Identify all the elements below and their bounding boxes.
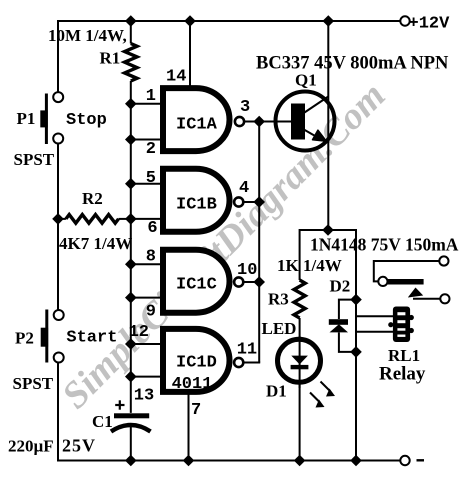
node: IC1B output (253, 196, 265, 208)
diode D2 triangle (330, 324, 349, 332)
node: bus pin12 (125, 338, 137, 350)
node: R2 left / switches (52, 213, 64, 225)
wire: pin 8 stub (131, 263, 161, 265)
NAND gate IC1D (163, 329, 230, 392)
node: top rail / collector (323, 15, 335, 27)
IC1B output bubble pin 4 (234, 197, 243, 206)
wire: pin 1 stub (131, 103, 161, 105)
svg-text:1K 1/4W: 1K 1/4W (277, 256, 342, 275)
svg-text:9: 9 (146, 303, 156, 322)
LED D1 light arrow 2 (310, 393, 320, 403)
wire: pin 14 to +12V (189, 21, 191, 86)
wire: left rail P2 to bottom (57, 362, 59, 461)
capacitor C1 top plate (114, 413, 149, 418)
NAND gate IC1A (163, 88, 230, 151)
wire: relay contact pole (374, 261, 439, 281)
node: IC1A output (253, 116, 265, 128)
relay RL1 upper terminal (439, 256, 448, 265)
NAND gate IC1C (163, 250, 230, 313)
wire: top rail +12V (58, 21, 400, 93)
wire: pin 7 to ground (188, 395, 190, 461)
wire: pin 13 stub (131, 376, 161, 378)
svg-text:LED: LED (262, 319, 297, 338)
svg-text:5: 5 (146, 169, 156, 188)
NAND gate IC1B (163, 169, 230, 232)
switch P2 lever (45, 310, 48, 363)
node: bottom rail / LED (294, 455, 306, 467)
wire: emitter node horizontal (300, 230, 356, 300)
LED D1 circle (278, 339, 321, 382)
wire: pin 6 stub (131, 218, 161, 220)
wire: relay branch vertical (355, 300, 357, 461)
svg-text:6: 6 (147, 219, 157, 238)
node: top rail / R1 (125, 15, 137, 27)
diode D2 cathode bar (329, 319, 348, 325)
relay RL1 contact blade (388, 279, 424, 285)
capacitor C1 plus sign (115, 400, 124, 409)
wire: IC1A output to Q1 base (245, 121, 292, 123)
IC1D output bubble pin 11 (234, 358, 243, 367)
wire: pin 5 stub (131, 183, 161, 185)
svg-text:10M 1/4W,: 10M 1/4W, (48, 26, 127, 45)
svg-text:14: 14 (166, 68, 186, 87)
node: bus pin9 (125, 292, 137, 304)
svg-text:12: 12 (129, 323, 149, 342)
svg-text:IC1A: IC1A (176, 116, 218, 135)
wire: relay coil lead top (356, 315, 393, 317)
terminal +12V (400, 16, 409, 25)
svg-text:D2: D2 (330, 277, 351, 296)
node: bottom rail / relay (350, 455, 362, 467)
IC1A output bubble pin 3 (235, 117, 244, 126)
node: top rail / pin14 (184, 15, 196, 27)
relay RL1 pole terminal (378, 277, 387, 286)
wire: left rail P1 to P2 (57, 143, 59, 311)
transistor Q1 base bar (291, 104, 305, 140)
node: bottom rail / pin7 (183, 455, 195, 467)
node: D2 top (350, 294, 362, 306)
svg-text:7: 7 (191, 401, 201, 420)
wire: pin 9 stub (131, 297, 161, 299)
wire: IC1D output stub (244, 362, 261, 364)
wire: gate outputs common vertical (258, 122, 260, 363)
LED D1 cathode bar (291, 365, 309, 369)
svg-text:IC1B: IC1B (176, 196, 217, 215)
svg-text:11: 11 (237, 341, 257, 360)
svg-text:+12V: +12V (409, 15, 451, 34)
LED D1 triangle (291, 356, 308, 365)
wire: input bus vertical (130, 21, 132, 44)
svg-text:Relay: Relay (379, 364, 426, 385)
svg-text:SPST: SPST (13, 374, 54, 393)
node: bus pin1 (125, 98, 137, 110)
transistor Q1 emitter line (303, 129, 318, 138)
svg-text:D1: D1 (266, 382, 287, 401)
svg-text:P2: P2 (15, 329, 34, 348)
svg-text:220µF: 220µF (8, 437, 54, 456)
switch P1 lever (45, 94, 48, 145)
switch P1 terminals (53, 92, 63, 102)
node: bus pin8 (125, 258, 137, 270)
transistor Q1 collector line (303, 97, 328, 114)
resistor R3 (294, 280, 305, 318)
node: bus pin6/R2 (125, 213, 137, 225)
node: IC1C output (253, 276, 265, 288)
wire: R2 leads (58, 218, 131, 220)
svg-text:Stop: Stop (66, 111, 107, 130)
svg-text:Q1: Q1 (295, 71, 317, 90)
node: D2 bottom (350, 346, 362, 358)
svg-text:1N4148 75V 150mA: 1N4148 75V 150mA (310, 235, 459, 255)
svg-text:1: 1 (146, 87, 156, 106)
resistor R2 (66, 215, 119, 224)
wire: pin 12 stub (131, 343, 161, 345)
wire: R3 to LED (299, 318, 301, 339)
LED D1 wire through (299, 336, 301, 388)
wire: IC1C output stub (244, 281, 260, 283)
svg-text:C1: C1 (92, 412, 113, 431)
node: bottom rail / bus (125, 455, 137, 467)
wire: pin 2 stub (131, 139, 161, 141)
svg-text:BC337 45V 800mA NPN: BC337 45V 800mA NPN (256, 54, 449, 74)
node: bus pin13 (125, 371, 137, 383)
wire: LED to bottom rail (299, 382, 301, 461)
wire: relay NO contact lead (413, 298, 440, 300)
svg-text:13: 13 (134, 387, 154, 406)
capacitor C1 curved plate (111, 425, 151, 432)
terminal 0V (400, 456, 409, 465)
LED D1 light arrow 1 (321, 382, 331, 392)
svg-text:8: 8 (146, 248, 156, 267)
IC1C output bubble pin 10 (234, 277, 243, 286)
switch P2 terminals (54, 310, 64, 320)
svg-text:P1: P1 (17, 109, 36, 128)
resistor R1 (125, 44, 137, 82)
svg-text:3: 3 (240, 98, 250, 117)
svg-text:4011: 4011 (172, 375, 213, 394)
svg-text:SPST: SPST (14, 150, 55, 169)
relay RL1 contact arrow (408, 288, 423, 298)
wire: Q1 collector-emitter vertical (327, 21, 329, 230)
node: bus pin2 (125, 134, 137, 146)
svg-text:IC1C: IC1C (176, 276, 217, 295)
svg-text:4K7 1/4W: 4K7 1/4W (59, 234, 132, 253)
svg-text:Start: Start (66, 329, 117, 348)
minus dash (417, 459, 425, 461)
transistor Q1 emitter arrow (313, 130, 327, 141)
node: emitter junction (322, 224, 334, 236)
wire: relay coil lead bottom (356, 331, 393, 333)
svg-text:2: 2 (146, 140, 156, 159)
svg-text:IC1D: IC1D (176, 354, 217, 373)
wire: bottom rail (57, 460, 400, 462)
svg-text:R1: R1 (100, 49, 121, 68)
svg-text:10: 10 (237, 261, 257, 280)
node: bus pin5 (125, 178, 137, 190)
svg-text:RL1: RL1 (388, 346, 420, 365)
svg-text:25V: 25V (62, 436, 96, 456)
relay RL1 lower terminal (440, 294, 449, 303)
svg-text:R2: R2 (82, 189, 103, 208)
switch P2 cap (41, 328, 48, 347)
transistor Q1 circle (276, 92, 335, 151)
switch P1 cap (40, 110, 47, 127)
svg-text:R3: R3 (268, 290, 289, 309)
svg-text:4: 4 (239, 179, 249, 198)
wire: D2 branch (339, 300, 356, 319)
wire: IC1B output stub (244, 201, 260, 203)
relay RL1 coil (388, 307, 414, 343)
